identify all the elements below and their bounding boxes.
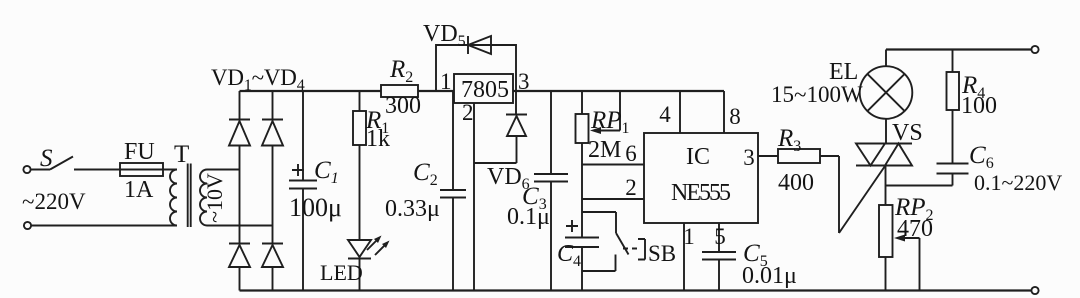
svg-text:1: 1 [683,224,695,249]
svg-text:4: 4 [659,102,671,127]
svg-text:VS: VS [892,120,923,146]
svg-text:15~100W: 15~100W [771,82,863,107]
svg-text:C4: C4 [557,241,581,270]
svg-text:2M: 2M [588,137,621,163]
svg-text:IC: IC [686,144,710,170]
svg-text:6: 6 [625,141,637,166]
svg-text:C6: C6 [969,142,994,172]
svg-text:0.1~220V: 0.1~220V [974,170,1062,195]
svg-text:0.33μ: 0.33μ [385,196,440,222]
svg-text:FU: FU [124,139,155,165]
svg-text:C2: C2 [413,159,438,189]
svg-text:T: T [174,141,189,168]
svg-text:SB: SB [648,241,676,266]
svg-text:0.01μ: 0.01μ [742,263,797,289]
svg-text:VD1~VD4: VD1~VD4 [211,65,305,94]
svg-text:NE555: NE555 [671,180,731,206]
svg-text:8: 8 [729,104,741,129]
svg-text:RP1: RP1 [590,107,630,137]
svg-text:1: 1 [440,69,452,94]
svg-text:300: 300 [385,93,421,119]
svg-text:3: 3 [743,145,755,170]
svg-text:~220V: ~220V [22,189,86,214]
svg-text:5: 5 [714,224,726,249]
svg-text:R2: R2 [389,56,413,86]
svg-text:VD5: VD5 [423,21,466,50]
svg-text:1k: 1k [366,126,390,152]
svg-text:100μ: 100μ [289,193,342,222]
svg-text:C1: C1 [314,157,339,187]
svg-text:100: 100 [961,93,997,119]
svg-text:R3: R3 [777,125,801,155]
svg-text:2: 2 [625,175,637,200]
svg-text:2: 2 [462,100,474,125]
svg-text:0.1μ: 0.1μ [507,204,550,230]
svg-text:400: 400 [778,170,814,196]
svg-text:~10V: ~10V [202,173,227,223]
svg-text:S: S [40,145,53,172]
svg-text:1A: 1A [124,177,154,203]
svg-text:470: 470 [897,216,933,242]
svg-text:3: 3 [518,69,530,94]
svg-text:LED: LED [320,260,363,285]
